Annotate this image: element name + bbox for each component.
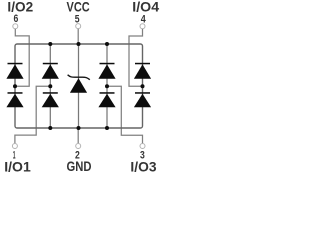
diode D1 upper (col1, I/O2 to VCC)	[6, 63, 23, 79]
wire pin6 lead to col1 midpoint	[15, 29, 29, 86]
svg-text:I/O4: I/O4	[132, 0, 159, 14]
pin 5 terminal circle	[76, 24, 81, 29]
node GND rail / zener	[77, 126, 81, 130]
diode D4 lower (GND to I/O4 node)	[134, 92, 151, 107]
diode D4 upper (col4, I/O4 to VCC)	[134, 63, 151, 79]
pin 1 terminal circle	[12, 144, 17, 149]
svg-text:6: 6	[14, 13, 19, 25]
svg-text:I/O3: I/O3	[130, 160, 157, 175]
diode D1 lower (GND to I/O2 node)	[6, 92, 23, 107]
diode D3 upper (col3, I/O3 to VCC)	[98, 63, 115, 79]
wire zener vertical	[78, 44, 80, 128]
wire pin4 lead to col4 midpoint	[129, 29, 143, 86]
zener TVS diode (VCC to GND, center)	[68, 75, 90, 93]
wire pin1 lead to col2 midpoint	[15, 86, 50, 143]
node GND rail / col3	[105, 126, 109, 130]
pin 6 terminal circle	[13, 24, 18, 29]
diode D2 lower (GND to I/O1 node)	[42, 92, 59, 107]
node col1 midpoint (I/O2 net)	[13, 84, 17, 88]
svg-text:VCC: VCC	[67, 0, 90, 15]
wire pin5 VCC lead	[77, 29, 79, 44]
svg-text:I/O2: I/O2	[7, 0, 33, 14]
VCC rail, GND rail, col1 and col4 verticals (box outline)	[15, 44, 143, 128]
diode D3 lower (GND to I/O3 node)	[98, 92, 115, 107]
node VCC rail / col3	[105, 42, 109, 46]
node col2 midpoint (I/O1 net)	[48, 84, 52, 88]
node col4 midpoint (I/O4 net)	[141, 84, 145, 88]
node col3 midpoint (I/O3 net)	[105, 84, 109, 88]
node VCC rail / col2	[48, 42, 52, 46]
pin 4 terminal circle	[140, 24, 145, 29]
wire col3 vertical	[106, 44, 108, 128]
svg-text:GND: GND	[67, 159, 92, 174]
wire pin2 GND lead	[77, 128, 79, 143]
wire col2 vertical	[49, 44, 51, 128]
pin 3 terminal circle	[140, 144, 145, 149]
wire pin3 lead to col3 midpoint	[107, 86, 143, 143]
node VCC rail / zener	[77, 42, 81, 46]
svg-text:I/O1: I/O1	[4, 160, 31, 175]
diode D2 upper (col2, I/O1 to VCC)	[42, 63, 59, 79]
node GND rail / col2	[48, 126, 52, 130]
pin 2 terminal circle	[76, 144, 81, 149]
